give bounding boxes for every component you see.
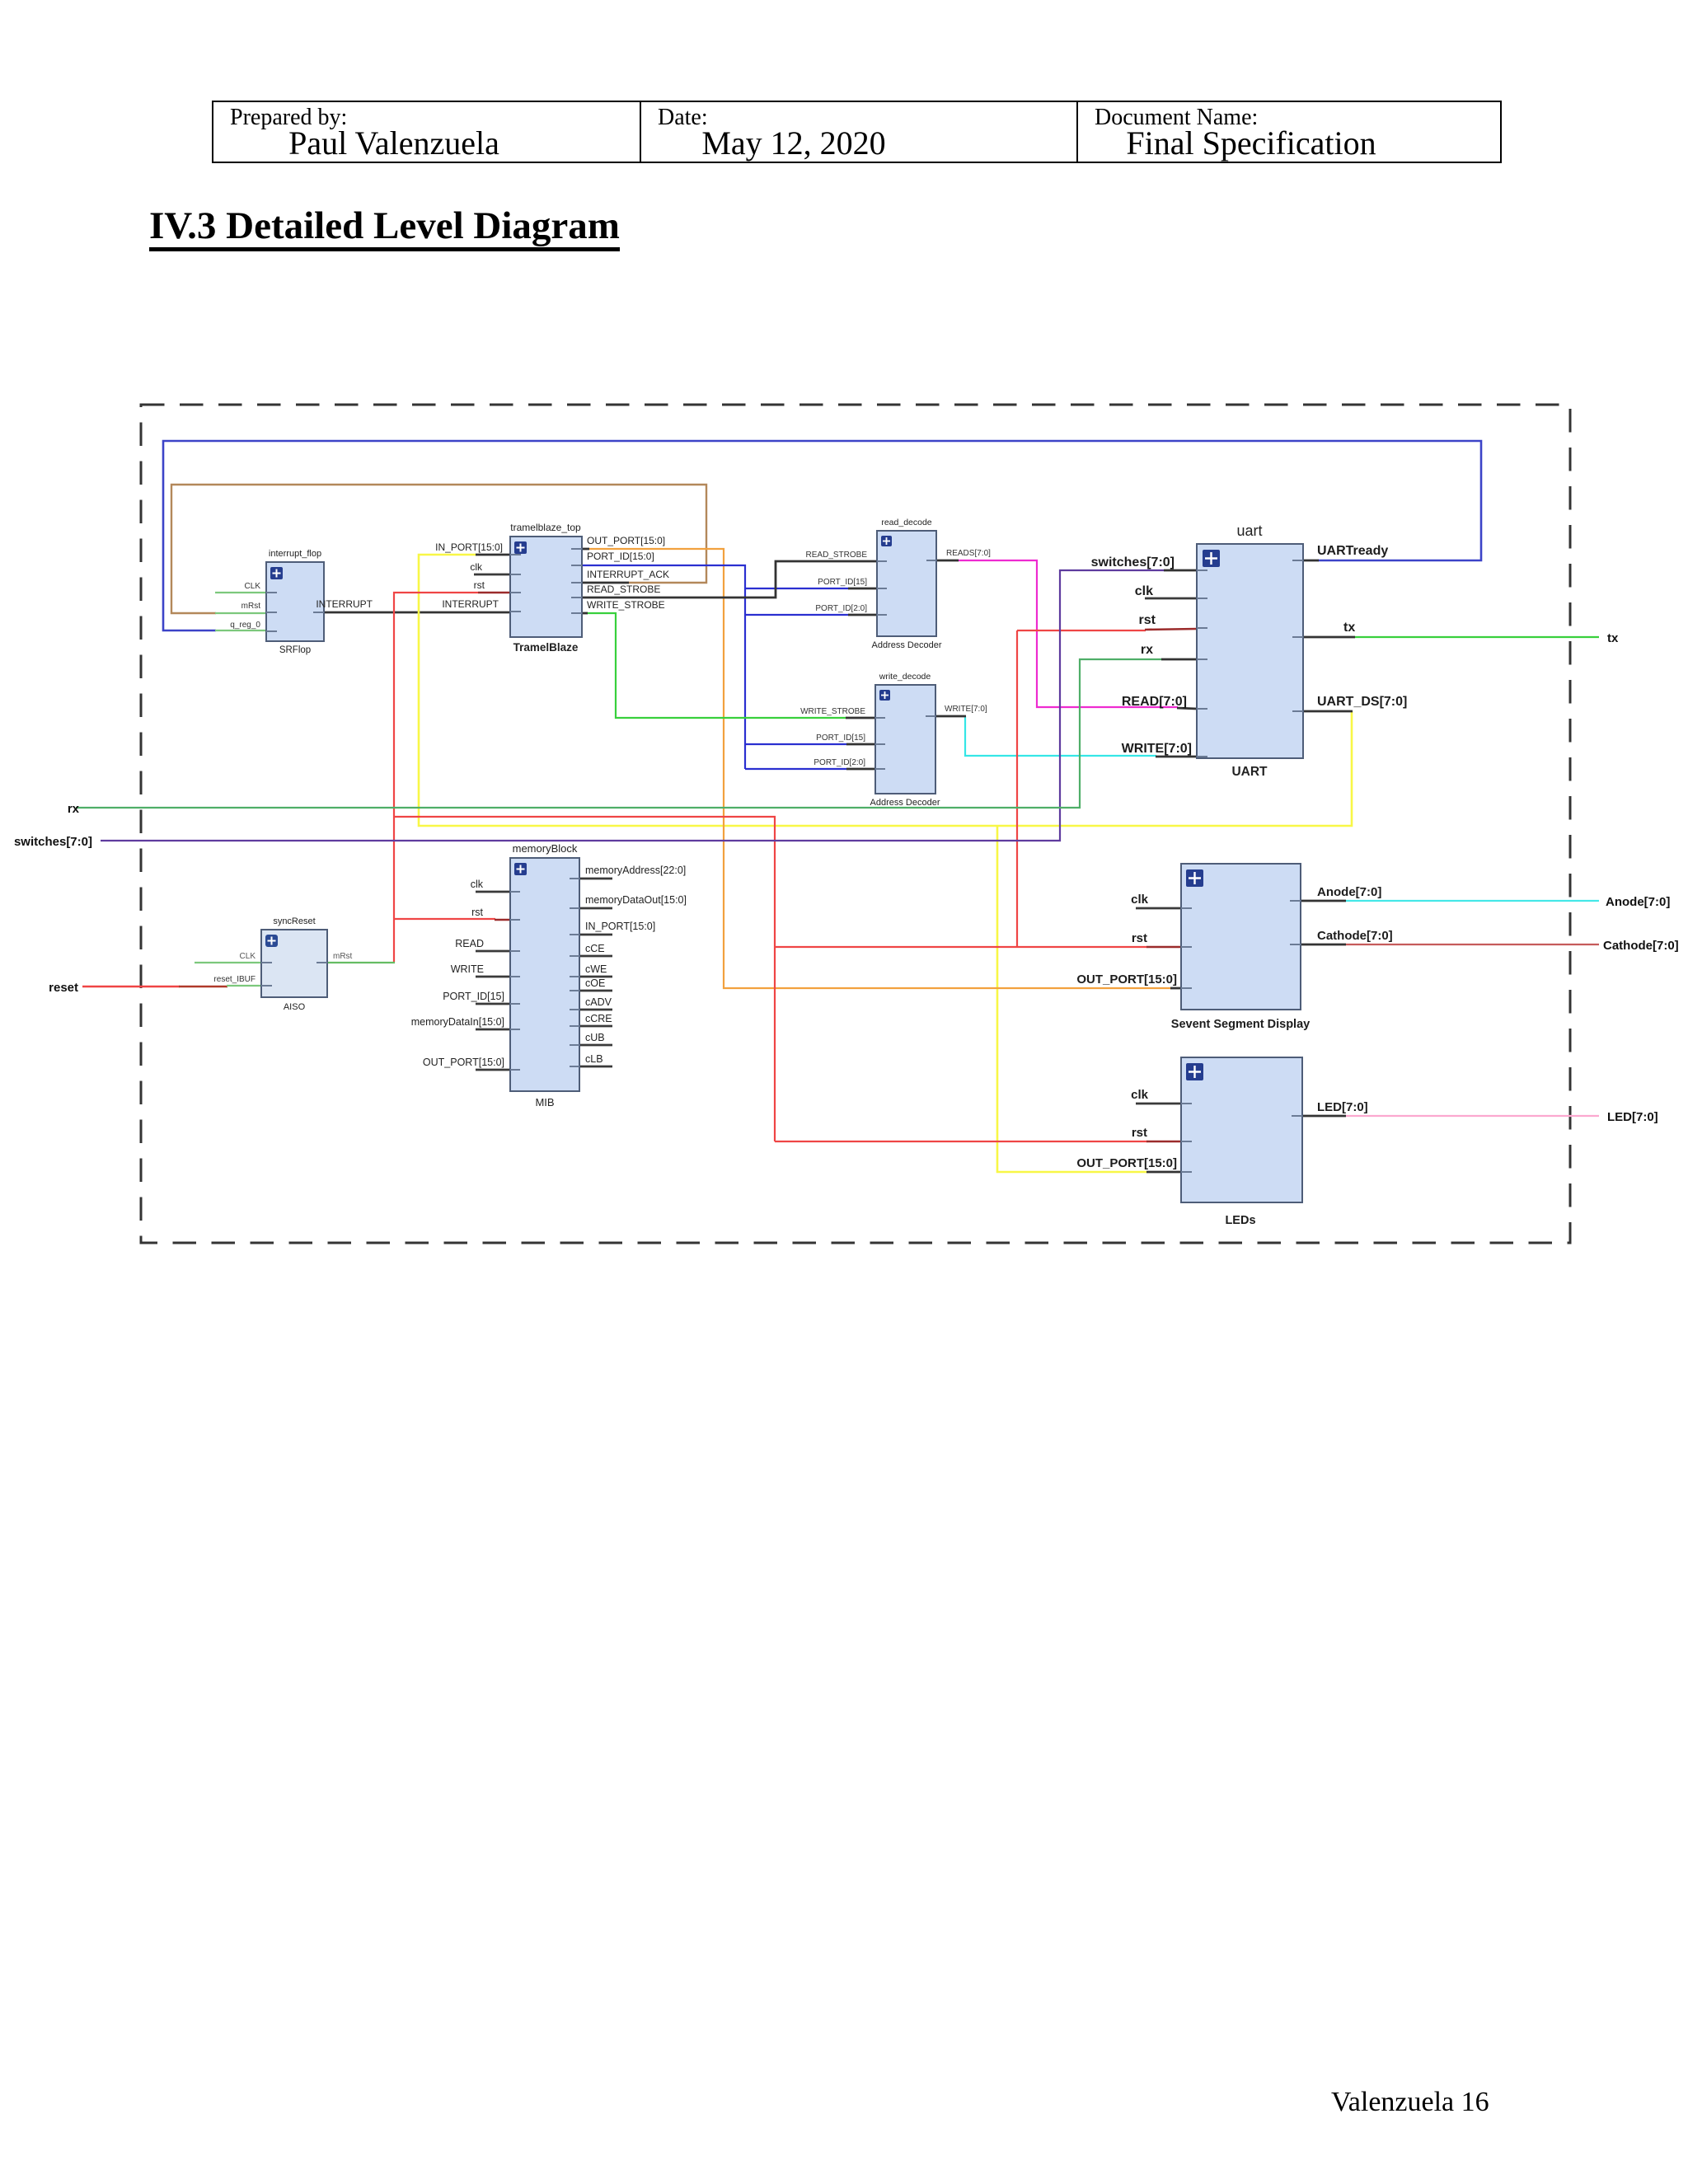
svg-text:tramelblaze_top: tramelblaze_top <box>510 522 581 533</box>
block write_decode (Address Decoder) <box>800 672 987 808</box>
svg-text:Cathode[7:0]: Cathode[7:0] <box>1603 939 1679 953</box>
svg-text:PORT_ID[2:0]: PORT_ID[2:0] <box>815 604 867 613</box>
svg-text:mRst: mRst <box>241 602 261 611</box>
svg-text:q_reg_0: q_reg_0 <box>230 621 260 630</box>
svg-text:read_decode: read_decode <box>881 518 931 527</box>
svg-text:reset_IBUF: reset_IBUF <box>213 975 256 984</box>
wire stubs WRITE (black) <box>935 716 1197 757</box>
svg-text:Anode[7:0]: Anode[7:0] <box>1317 885 1381 899</box>
svg-text:PORT_ID[15]: PORT_ID[15] <box>443 991 504 1002</box>
port label tx <box>1607 631 1619 645</box>
svg-text:rst: rst <box>1132 931 1147 945</box>
svg-text:UARTready: UARTready <box>1317 544 1388 558</box>
wire stub LED at LEDs (black) <box>1302 1115 1346 1118</box>
svg-text:memoryDataOut[15:0]: memoryDataOut[15:0] <box>585 894 687 906</box>
wire net IN_PORT (yellow) <box>419 555 1352 1172</box>
block UART (uart) <box>1091 523 1408 779</box>
svg-text:clk: clk <box>471 879 484 890</box>
wire stubs WRITE_STROBE (black) <box>582 613 875 718</box>
svg-text:switches[7:0]: switches[7:0] <box>14 835 92 849</box>
wire stubs PORT_ID at decoders (black) <box>846 588 877 769</box>
wire net switches (purple) <box>101 570 1165 841</box>
wire stub IN_PORT at TramelBlaze (black) <box>476 554 510 556</box>
wire rst dark-red pin segments <box>478 593 1197 1141</box>
wire green stub q_reg_0 <box>215 630 266 631</box>
wire stub INTERRUPT_ACK (black) <box>582 582 629 584</box>
section heading <box>149 205 620 251</box>
wire green stub CLK input of SRFlop <box>215 592 266 593</box>
svg-text:Address Decoder: Address Decoder <box>872 640 942 650</box>
svg-text:UART: UART <box>1231 765 1268 779</box>
wire stubs READS (black) <box>936 560 1197 709</box>
unconnected pin stub clk TramelBlaze <box>474 574 510 576</box>
wire net UARTready (blue) <box>163 441 1481 630</box>
wire label INTERRUPT <box>316 598 373 610</box>
wire stub Cathode at Seven Segment Display (black) <box>1301 944 1346 946</box>
block MIB (memoryBlock) <box>411 842 687 1108</box>
wire reset dark-red segment <box>179 986 227 988</box>
wire tx external (green) <box>1354 636 1599 638</box>
block AISO (syncReset) <box>213 916 352 1012</box>
page number footer <box>1331 2087 1489 2118</box>
svg-text:rx: rx <box>1141 643 1153 657</box>
unconnected pin stub clk Seven Segment Display <box>1136 907 1181 910</box>
svg-text:READS[7:0]: READS[7:0] <box>946 549 991 558</box>
wire net rst (red) <box>394 593 1147 1141</box>
svg-text:INTERRUPT_ACK: INTERRUPT_ACK <box>587 569 669 580</box>
wire green stub CLK input of AISO <box>195 962 261 963</box>
wire stub UARTready (black) <box>1303 560 1319 562</box>
svg-text:rst: rst <box>474 579 485 591</box>
svg-text:AISO: AISO <box>284 1002 306 1012</box>
port label reset <box>49 981 78 995</box>
wire net INTERRUPT_ACK (brown) <box>171 485 706 613</box>
wire mRst output of AISO (green) <box>327 962 395 963</box>
svg-text:INTERRUPT: INTERRUPT <box>316 598 373 610</box>
wire stub OUT_PORT at Seven Segment Display (black) <box>1170 987 1181 990</box>
wire net READS (magenta) <box>958 560 1178 707</box>
wire net PORT_ID (dark blue) <box>582 565 849 769</box>
wire Anode external (cyan) <box>1345 900 1599 902</box>
block read_decode (Address Decoder) <box>806 518 992 650</box>
svg-text:IN_PORT[15:0]: IN_PORT[15:0] <box>585 921 655 932</box>
svg-text:WRITE_STROBE: WRITE_STROBE <box>587 599 665 611</box>
svg-text:clk: clk <box>1135 584 1153 598</box>
svg-text:rx: rx <box>68 802 80 816</box>
wire net OUT_PORT (orange) <box>588 549 1171 988</box>
svg-text:WRITE[7:0]: WRITE[7:0] <box>1122 742 1192 756</box>
unconnected pin stubs MIB left <box>476 892 510 1070</box>
port label LED[7:0] <box>1607 1110 1658 1124</box>
svg-text:clk: clk <box>1131 1088 1149 1102</box>
svg-text:PORT_ID[15]: PORT_ID[15] <box>818 578 867 587</box>
wire green stub mRst input of SRFlop <box>215 612 266 614</box>
svg-text:TramelBlaze: TramelBlaze <box>513 641 579 654</box>
wire stub rx at UART (black) <box>1161 658 1197 661</box>
svg-text:rst: rst <box>471 907 483 918</box>
wire stub UART_DS at UART (black) <box>1303 710 1353 713</box>
wire green stub reset_IBUF <box>227 985 261 987</box>
port label rx <box>68 802 80 816</box>
wire net WRITE_STROBE (green) <box>587 613 846 718</box>
wire stub tx at UART (black) <box>1303 636 1355 639</box>
wire INTERRUPT (SRFlop to TramelBlaze) <box>324 612 510 614</box>
svg-text:memoryBlock: memoryBlock <box>513 842 578 855</box>
wire stub switches at UART (black) <box>1164 569 1197 572</box>
svg-text:write_decode: write_decode <box>879 672 931 682</box>
svg-text:clk: clk <box>470 561 483 573</box>
svg-text:rst: rst <box>1139 613 1156 627</box>
svg-text:Anode[7:0]: Anode[7:0] <box>1606 895 1670 909</box>
svg-text:cUB: cUB <box>585 1032 605 1043</box>
svg-text:OUT_PORT[15:0]: OUT_PORT[15:0] <box>423 1057 504 1068</box>
svg-text:READ: READ <box>455 938 484 949</box>
port label switches[7:0] <box>14 835 92 849</box>
svg-text:switches[7:0]: switches[7:0] <box>1091 555 1175 569</box>
svg-text:READ_STROBE: READ_STROBE <box>587 583 660 595</box>
svg-text:cOE: cOE <box>585 977 605 989</box>
wire reset external (red) <box>82 986 180 988</box>
block Seven Segment Display <box>1076 864 1392 1031</box>
svg-text:mRst: mRst <box>333 952 353 961</box>
svg-text:Sevent Segment Display: Sevent Segment Display <box>1171 1018 1310 1031</box>
svg-text:READ[7:0]: READ[7:0] <box>1122 695 1187 709</box>
svg-text:cCE: cCE <box>585 943 605 954</box>
svg-text:OUT_PORT[15:0]: OUT_PORT[15:0] <box>587 535 665 546</box>
svg-text:rst: rst <box>1132 1126 1147 1140</box>
svg-text:tx: tx <box>1343 621 1355 635</box>
svg-text:memoryDataIn[15:0]: memoryDataIn[15:0] <box>411 1016 504 1028</box>
svg-text:cWE: cWE <box>585 963 607 975</box>
svg-text:tx: tx <box>1607 631 1619 645</box>
svg-text:memoryAddress[22:0]: memoryAddress[22:0] <box>585 865 686 876</box>
svg-text:IN_PORT[15:0]: IN_PORT[15:0] <box>435 541 503 553</box>
svg-text:clk: clk <box>1131 893 1149 907</box>
header table <box>212 101 1502 163</box>
svg-text:cCRE: cCRE <box>585 1013 612 1024</box>
wire Cathode external (indian red) <box>1345 944 1599 945</box>
svg-text:cADV: cADV <box>585 996 612 1008</box>
svg-text:SRFlop: SRFlop <box>279 645 311 655</box>
svg-text:READ_STROBE: READ_STROBE <box>806 551 868 560</box>
unconnected pin stub clk LEDs <box>1136 1103 1181 1105</box>
unconnected pin stubs MIB right <box>579 879 612 1066</box>
svg-text:WRITE_STROBE: WRITE_STROBE <box>800 707 865 716</box>
wire net WRITE (cyan) <box>965 716 1156 756</box>
dashed hierarchy boundary <box>141 405 1570 1243</box>
svg-text:Cathode[7:0]: Cathode[7:0] <box>1317 929 1393 943</box>
svg-text:UART_DS[7:0]: UART_DS[7:0] <box>1317 695 1407 709</box>
svg-text:reset: reset <box>49 981 78 995</box>
svg-text:INTERRUPT: INTERRUPT <box>442 598 499 610</box>
wire LED external (pink) <box>1345 1115 1599 1117</box>
svg-text:MIB: MIB <box>535 1096 554 1108</box>
svg-text:Address Decoder: Address Decoder <box>870 798 940 808</box>
svg-text:CLK: CLK <box>240 952 256 961</box>
svg-text:WRITE[7:0]: WRITE[7:0] <box>945 705 987 714</box>
wire READ_STROBE (black) <box>582 561 877 598</box>
svg-text:interrupt_flop: interrupt_flop <box>269 549 321 559</box>
svg-text:OUT_PORT[15:0]: OUT_PORT[15:0] <box>1076 972 1177 987</box>
wire stub OUT_PORT at TramelBlaze (black) <box>582 548 589 551</box>
svg-text:WRITE: WRITE <box>451 963 484 975</box>
svg-text:PORT_ID[15]: PORT_ID[15] <box>816 733 865 743</box>
svg-text:CLK: CLK <box>245 582 261 591</box>
svg-text:uart: uart <box>1236 523 1262 539</box>
block LEDs <box>1076 1057 1367 1227</box>
block SRFlop (interrupt_flop) <box>230 549 324 655</box>
wire stub Anode at Seven Segment Display (black) <box>1301 900 1346 902</box>
svg-text:LED[7:0]: LED[7:0] <box>1607 1110 1658 1124</box>
port label Cathode[7:0] <box>1603 939 1679 953</box>
wire stub OUT_PORT at LEDs (black) <box>1146 1171 1181 1174</box>
svg-text:cLB: cLB <box>585 1053 603 1065</box>
svg-text:syncReset: syncReset <box>273 916 315 926</box>
block TramelBlaze (tramelblaze_top) <box>435 522 669 654</box>
wire net rx (sea green) <box>76 659 1162 808</box>
port label Anode[7:0] <box>1606 895 1670 909</box>
svg-text:LEDs: LEDs <box>1225 1214 1255 1227</box>
svg-text:LED[7:0]: LED[7:0] <box>1317 1100 1368 1114</box>
svg-text:PORT_ID[2:0]: PORT_ID[2:0] <box>814 758 865 767</box>
unconnected pin stub clk UART <box>1145 598 1197 600</box>
svg-text:OUT_PORT[15:0]: OUT_PORT[15:0] <box>1076 1156 1177 1170</box>
svg-text:PORT_ID[15:0]: PORT_ID[15:0] <box>587 551 654 562</box>
